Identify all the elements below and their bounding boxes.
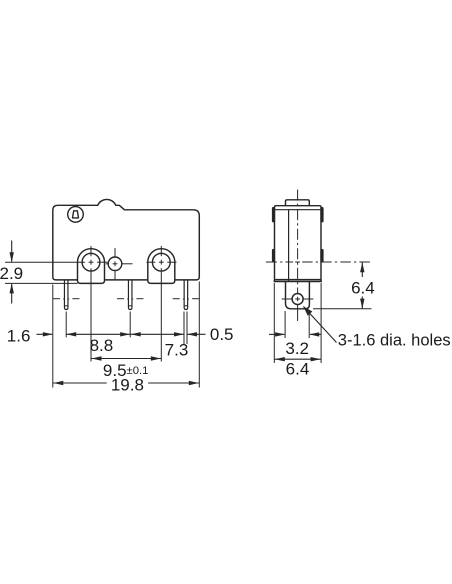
svg-text:3.2: 3.2	[285, 339, 309, 358]
svg-text:6.4: 6.4	[351, 278, 375, 297]
svg-text:6.4: 6.4	[286, 360, 310, 379]
svg-text:0.5: 0.5	[210, 325, 234, 344]
svg-text:2.9: 2.9	[0, 264, 23, 283]
svg-text:1.6: 1.6	[7, 326, 31, 345]
svg-text:3-1.6 dia. holes: 3-1.6 dia. holes	[338, 332, 451, 350]
svg-text:19.8: 19.8	[111, 375, 144, 394]
svg-text:8.8: 8.8	[90, 336, 114, 355]
svg-text:7.3: 7.3	[165, 341, 189, 360]
